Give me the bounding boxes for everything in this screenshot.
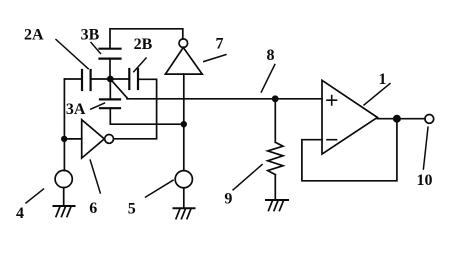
label 5 leader — [146, 180, 174, 197]
svg-text:6: 6 — [89, 200, 97, 217]
label 4 leader — [26, 189, 44, 203]
wire: left rail horizontal to capacitor 2A — [64, 78, 81, 80]
svg-text:4: 4 — [16, 205, 24, 222]
op-amp U1 triangle — [322, 80, 377, 154]
op-amp minus sign — [327, 139, 337, 141]
capacitor 2A — [82, 70, 91, 90]
label 1 leader — [364, 84, 390, 106]
capacitor 2B — [129, 69, 138, 89]
ground under source 4 — [54, 206, 75, 217]
svg-text:2A: 2A — [24, 27, 44, 44]
wire: resistor 9 to ground — [274, 175, 276, 200]
wire: buffer 7 input down to source 5 — [183, 74, 185, 171]
inverter 6 triangle — [82, 120, 105, 158]
svg-text:7: 7 — [216, 36, 224, 53]
svg-text:8: 8 — [267, 47, 275, 64]
wire: inverter 6 input — [64, 138, 81, 140]
wire: node A down to capacitor 3A — [109, 79, 111, 99]
ground under source 5 — [174, 208, 195, 219]
op-amp plus sign — [327, 96, 337, 105]
wire: 3A bottom plate down and right to buffer 7 input line — [110, 108, 183, 124]
node: output junction — [393, 115, 401, 123]
wire: source 5 to ground — [183, 188, 185, 208]
label 6 leader — [90, 160, 100, 193]
source 5 circle — [175, 171, 192, 188]
label 7 leader — [204, 55, 226, 62]
wire: 2A right plate to node A — [91, 78, 111, 80]
buffer 7 output bubble — [179, 39, 188, 48]
node 8 — [272, 95, 279, 102]
wire: node A up to capacitor 3B — [109, 59, 111, 79]
terminal 10 open circle — [425, 115, 434, 124]
label 9 leader — [233, 165, 262, 190]
svg-text:3B: 3B — [81, 27, 100, 44]
svg-text:10: 10 — [417, 172, 433, 189]
capacitor 3B — [100, 49, 121, 59]
svg-text:9: 9 — [224, 191, 232, 208]
wire: feedback from output down, left and up to - input — [302, 120, 397, 181]
inverter 6 output bubble — [105, 135, 114, 144]
wire: op-amp output — [377, 118, 425, 120]
label 3A leader — [91, 103, 105, 109]
wire: left rail vertical down to source 4 — [63, 79, 65, 171]
ground under resistor 9 — [266, 200, 288, 211]
wire: 2B right plate right, down, and left to inverter 6 bubble — [114, 79, 157, 139]
capacitor 3A — [100, 99, 120, 108]
node A: central junction — [107, 76, 114, 83]
node: junction on left rail (inverter 6 input tap) — [61, 136, 67, 142]
svg-text:5: 5 — [128, 201, 136, 218]
buffer 7 triangle — [165, 48, 202, 75]
svg-text:1: 1 — [379, 71, 387, 88]
wire: main bus to op-amp + input — [127, 98, 322, 100]
label 3B leader — [91, 43, 101, 54]
wire: node A to capacitor 2B — [110, 78, 129, 80]
wire: source 4 to ground — [63, 188, 65, 206]
label 8 leader — [261, 65, 275, 93]
label 2B leader — [134, 58, 146, 72]
label 2A leader — [56, 40, 88, 69]
wire: 3B top plate up and over to buffer 7 output bubble — [110, 29, 183, 49]
wire: node 8 down to resistor 9 — [274, 99, 276, 143]
svg-text:3A: 3A — [66, 101, 86, 118]
svg-text:2B: 2B — [134, 36, 153, 53]
resistor R9 zigzag — [268, 142, 283, 174]
node: junction of 3A wire with buffer 7 input line — [181, 121, 187, 127]
label 10 leader — [423, 127, 428, 169]
source 4 circle — [55, 170, 72, 187]
wire: diagonal from node A to main bus — [111, 80, 127, 98]
